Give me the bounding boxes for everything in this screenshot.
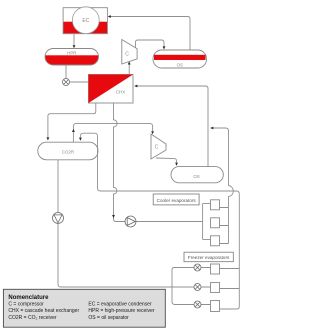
compressor C2 bbox=[151, 134, 166, 159]
legend box Nomenclature bbox=[3, 289, 165, 327]
svg-text:CO2R = CO₂ receiver: CO2R = CO₂ receiver bbox=[8, 315, 57, 321]
expansion valve XV1 bbox=[63, 79, 70, 86]
freezer row 3 wire bbox=[174, 304, 211, 306]
wire stub to cooler evaporator 3 bbox=[203, 239, 211, 241]
wire CO2R to compressor C2 (vapor suction) bbox=[73, 123, 152, 142]
freezer evaporator F1 bbox=[211, 264, 220, 274]
wire HPR to expansion valve bbox=[65, 65, 67, 79]
wire CHX to compressor C1 (suction) bbox=[128, 64, 130, 75]
arrowhead down on pump P2 feed bbox=[112, 215, 115, 218]
wire EC to HPR bbox=[73, 34, 75, 46]
freezer expansion valve XV4 bbox=[194, 301, 201, 308]
wire OS2 to CHX (CO2 condensing line) bbox=[136, 86, 208, 167]
svg-text:OS: OS bbox=[177, 62, 183, 67]
cooler evaporator E2 bbox=[211, 218, 220, 228]
freezer evaporator F3 bbox=[211, 301, 220, 312]
svg-text:CHX = cascade heat exchanger: CHX = cascade heat exchanger bbox=[8, 308, 79, 314]
evaporative condenser EC bbox=[63, 7, 107, 34]
svg-text:EC: EC bbox=[82, 18, 89, 24]
arrowhead into OS1 top bbox=[163, 46, 166, 49]
svg-text:HPR: HPR bbox=[67, 50, 76, 55]
compressor C1 bbox=[122, 40, 137, 65]
wire CO2R to pump P1 bbox=[57, 160, 59, 213]
wire valve to CHX bbox=[70, 81, 89, 83]
freezer expansion valve XV2 bbox=[194, 264, 201, 271]
wire CHX to CO2R (condensed liquid) bbox=[48, 103, 96, 138]
freezer row 2 wire bbox=[172, 286, 211, 288]
svg-text:HPR = high-pressure receiver: HPR = high-pressure receiver bbox=[88, 308, 154, 314]
arrowhead into OS2-CHX riser bbox=[210, 127, 213, 130]
wire C1 to OS1 bbox=[136, 40, 165, 48]
cooler return header (hop over freezer return) with arrow into OS2 riser bbox=[212, 128, 233, 244]
wire C2 to OS2 bbox=[156, 158, 177, 163]
freezer evaporator F2 bbox=[211, 283, 220, 293]
svg-text:OS = oil separator: OS = oil separator bbox=[88, 315, 129, 321]
arrowhead into C1 bottom bbox=[128, 61, 131, 64]
svg-text:CO2R: CO2R bbox=[62, 150, 74, 155]
svg-text:Nomenclature: Nomenclature bbox=[8, 295, 49, 301]
oil separator OS2 bbox=[171, 167, 223, 183]
svg-text:C = compressor: C = compressor bbox=[8, 302, 44, 308]
arrowhead into CO2R top (return) bbox=[79, 138, 82, 141]
arrowhead up on CO2R vapor riser bbox=[72, 129, 75, 132]
wire stub to cooler evaporator 1 bbox=[203, 203, 211, 205]
arrowhead into CO2R top bbox=[47, 137, 50, 140]
pump P2 bbox=[125, 216, 136, 227]
svg-text:EC = evaporative condenser: EC = evaporative condenser bbox=[88, 302, 152, 308]
svg-text:C: C bbox=[125, 52, 129, 58]
label box Cooler evaporators bbox=[153, 194, 199, 205]
wire OS1 to EC (discharge gas line) bbox=[110, 17, 191, 51]
freezer row 1 wire bbox=[174, 267, 211, 269]
pump P1 bbox=[53, 213, 64, 224]
wire P1 to freezer supply run bbox=[58, 224, 172, 288]
svg-text:Cooler evaporators: Cooler evaporators bbox=[157, 198, 197, 203]
svg-text:C: C bbox=[155, 145, 159, 151]
cooler supply header bbox=[202, 204, 204, 240]
svg-text:Freezer evaporators: Freezer evaporators bbox=[188, 255, 230, 260]
cascade heat exchanger CHX bbox=[89, 75, 134, 104]
freezer supply header bbox=[172, 268, 175, 305]
svg-text:CHX: CHX bbox=[116, 90, 125, 95]
wire CHX down-leg to pump P2 (with two hops) bbox=[114, 103, 126, 222]
arrowhead into C2 top bbox=[151, 131, 154, 134]
CO2 receiver CO2R bbox=[38, 142, 98, 160]
wire P2 to cooler evaporators supply bbox=[136, 221, 203, 223]
cooler evaporator E1 bbox=[211, 200, 220, 210]
arrowhead into CHX right edge bbox=[134, 85, 137, 88]
freezer return riser to CO2R bbox=[80, 133, 239, 309]
arrowhead into HPR top bbox=[73, 45, 76, 48]
high-pressure receiver HPR bbox=[45, 49, 99, 66]
arrowhead into EC right edge bbox=[108, 15, 111, 18]
freezer return stubs bbox=[220, 269, 240, 310]
freezer expansion valve XV3 bbox=[194, 284, 201, 291]
arrowhead into OS2 top bbox=[175, 163, 178, 166]
cooler evaporator E3 bbox=[211, 236, 220, 246]
svg-text:OS: OS bbox=[193, 174, 199, 179]
label box Freezer evaporators bbox=[184, 252, 233, 262]
oil separator OS1 bbox=[153, 50, 207, 68]
